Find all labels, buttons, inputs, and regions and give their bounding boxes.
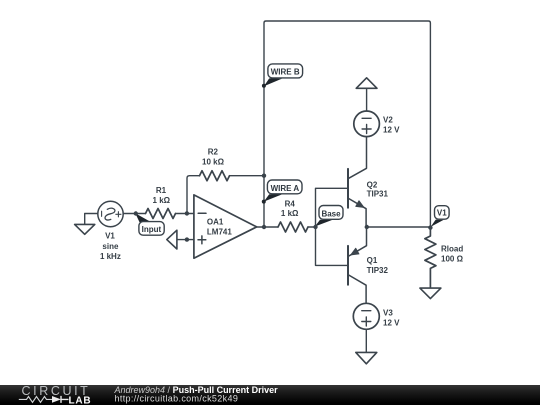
svg-text:Q2: Q2 (367, 180, 378, 189)
ground G1 (input source ground) (75, 224, 95, 234)
svg-text:Q1: Q1 (367, 256, 378, 265)
wire: feedback branch up from inverting input (187, 176, 200, 214)
label Rload (441, 245, 464, 264)
logo diode (52, 396, 61, 403)
label R4 (281, 200, 299, 218)
wire: op-amp output to node (257, 226, 278, 228)
svg-text:R1: R1 (156, 186, 167, 195)
svg-text:100 Ω: 100 Ω (441, 255, 464, 264)
wire: V1 source to node Input (123, 213, 145, 215)
svg-text:http://circuitlab.com/ck52k49: http://circuitlab.com/ck52k49 (115, 394, 239, 404)
label V2 (383, 116, 400, 135)
svg-text:WIRE B: WIRE B (271, 68, 300, 77)
junction: R2 right on wire B (262, 174, 266, 178)
callout WIRE A (262, 180, 302, 204)
svg-text:TIP31: TIP31 (367, 189, 389, 198)
svg-text:LAB: LAB (69, 395, 92, 405)
junction: op-amp output node (262, 225, 266, 229)
callout Input (135, 213, 164, 235)
junction: node Input at R1 left (134, 211, 138, 215)
wire: V1 source left to ground (85, 214, 98, 224)
op-amp OA1 LM741 (194, 195, 257, 258)
svg-text:TIP32: TIP32 (367, 266, 389, 275)
junction: inverting input / R2 branch (185, 211, 189, 215)
wire: arrow to V2 (366, 88, 368, 111)
svg-text:12 V: 12 V (383, 126, 400, 135)
callout Base (315, 206, 343, 227)
svg-text:Input: Input (142, 225, 162, 234)
label R1 (153, 186, 171, 205)
label V3 (383, 309, 400, 328)
transistor Q1 TIP32 (PNP) (348, 227, 367, 303)
label R2 (202, 148, 225, 167)
svg-text:OA1: OA1 (207, 218, 224, 227)
wire: base bus vertical with stubs to Q2 and Q1 bases (316, 188, 349, 265)
svg-text:R2: R2 (208, 148, 219, 157)
voltage source V2 (354, 111, 380, 137)
svg-text:10 kΩ: 10 kΩ (202, 158, 225, 167)
wire: R1 to op-amp inverting input (176, 213, 194, 215)
power arrow above V2 (356, 78, 377, 89)
wire: emitters junction to output node V1 (367, 226, 431, 228)
svg-text:1 kΩ: 1 kΩ (281, 209, 299, 218)
voltage source V3 (353, 303, 379, 329)
svg-text:R4: R4 (285, 200, 296, 209)
resistor R1 (146, 209, 176, 219)
label Q1 (367, 256, 389, 275)
wire: R4 to base node (308, 226, 316, 228)
transistor Q2 TIP31 (NPN) (348, 137, 367, 227)
junction: emitters node (365, 225, 369, 229)
wire B: vertical riser, top run, right drop (264, 21, 430, 228)
junction: node V1 / Rload top (428, 225, 432, 229)
svg-text:Rload: Rload (441, 245, 463, 254)
wire: R2 to node on wire B (230, 175, 265, 177)
svg-text:WIRE A: WIRE A (271, 184, 300, 193)
ground G4 (below Rload) (420, 288, 441, 299)
callout WIRE B (262, 64, 303, 88)
svg-text:V2: V2 (383, 116, 393, 125)
label V1 source (100, 232, 121, 262)
wire: V3 to ground (365, 329, 367, 352)
svg-text:Base: Base (321, 209, 341, 218)
voltage source V1 (sine) (98, 201, 123, 226)
resistor Rload (vertical) (425, 228, 436, 288)
svg-text:V1: V1 (437, 209, 447, 218)
svg-text:1 kΩ: 1 kΩ (153, 196, 171, 205)
callout V1 (output node) (431, 206, 450, 227)
junction: node Base (313, 225, 317, 229)
junction: non-inverting input (185, 237, 189, 241)
svg-text:V3: V3 (383, 309, 393, 318)
ground G3 (below V3) (356, 352, 377, 363)
svg-text:1 kHz: 1 kHz (100, 252, 121, 261)
label Q2 (367, 180, 389, 198)
svg-text:sine: sine (102, 242, 119, 251)
logo resistor zigzag (19, 397, 52, 403)
ground G2 (non-inverting input ground, pointing left) (167, 230, 177, 249)
wire: ground to op-amp non-inverting input (177, 239, 194, 241)
svg-text:V1: V1 (105, 232, 115, 241)
resistor R4 (278, 222, 308, 232)
svg-text:12 V: 12 V (383, 319, 400, 328)
resistor R2 (200, 171, 230, 181)
footer bar (0, 385, 540, 405)
svg-text:LM741: LM741 (207, 228, 232, 237)
